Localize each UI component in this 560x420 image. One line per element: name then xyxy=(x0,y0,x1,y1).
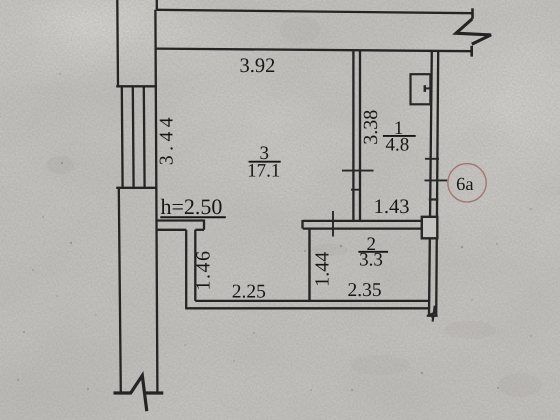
wire band right end tick upper xyxy=(471,8,474,18)
apartment number circle 6a xyxy=(448,164,486,202)
tick 2 right wall leader to circle xyxy=(425,179,448,181)
wire window bottom cap xyxy=(116,187,157,189)
svg-text:h=2.50: h=2.50 xyxy=(161,194,223,219)
wire h-wall cap bottom left piece xyxy=(156,229,186,231)
junction box on right wall xyxy=(422,217,438,239)
wire break symbol bottom-left xyxy=(114,376,164,412)
wire window outer frame line xyxy=(121,86,124,188)
svg-text:17.1: 17.1 xyxy=(247,160,280,181)
wire stem wall right line xyxy=(194,230,196,301)
wire window mullion 2 xyxy=(143,86,146,188)
wire right wall end cap xyxy=(427,315,438,317)
svg-text:4.8: 4.8 xyxy=(386,135,410,156)
svg-text:1.43: 1.43 xyxy=(374,196,410,218)
wire bottom wall top line xyxy=(195,300,429,302)
wire rooms3-1 wall left line xyxy=(352,51,354,221)
wire room2 top wall top line xyxy=(303,220,422,222)
wire room2 top wall left cap xyxy=(301,220,303,229)
wire left outer wall lower segment xyxy=(119,188,121,393)
wire top-left stub vertical xyxy=(156,0,158,11)
underline of h=2.50 xyxy=(160,216,226,218)
svg-text:3.92: 3.92 xyxy=(239,55,275,77)
tick on room2 top wall xyxy=(332,211,334,237)
long tick on rooms3-1 wall xyxy=(342,170,374,172)
cupboard handle vertical xyxy=(424,85,427,92)
wire window mullion 1 xyxy=(132,86,135,188)
cupboard handle horizontal xyxy=(425,87,431,89)
svg-text:3.3: 3.3 xyxy=(359,250,383,271)
tick 3 right wall xyxy=(429,198,439,200)
wire bottom wall bottom line xyxy=(185,307,429,309)
tick 1 right wall xyxy=(425,158,439,160)
wire window top cap xyxy=(116,85,157,87)
room 2 fraction bar xyxy=(358,251,388,253)
svg-text:2.25: 2.25 xyxy=(232,281,266,302)
room 3 fraction bar xyxy=(249,161,281,163)
wire stem wall left line xyxy=(185,230,187,308)
svg-text:3.38: 3.38 xyxy=(360,110,382,145)
wire right wall left line xyxy=(429,51,432,315)
room 1 fraction bar xyxy=(383,135,416,137)
wire break symbol top-right xyxy=(456,19,491,44)
wire h-wall cap bottom right piece xyxy=(195,229,204,231)
wire left outer wall upper segment xyxy=(116,0,119,86)
wire right wall right line xyxy=(436,51,438,315)
wire h-wall cap top xyxy=(156,219,204,221)
short tick on rooms3-1 wall xyxy=(351,189,361,191)
wire room2 top wall bottom line xyxy=(303,227,422,229)
wire room2 left wall xyxy=(308,229,310,301)
wire corridor-wall bottom line xyxy=(156,49,471,52)
svg-text:6a: 6a xyxy=(456,175,473,195)
wire band right end tick lower xyxy=(470,46,473,57)
svg-text:1.46: 1.46 xyxy=(193,250,215,291)
svg-text:1.44: 1.44 xyxy=(312,252,334,287)
wire h-wall cap right edge xyxy=(203,220,205,230)
wire corridor-wall top line xyxy=(157,10,473,13)
paper specks xyxy=(17,73,532,391)
svg-text:2.35: 2.35 xyxy=(347,280,381,301)
cupboard in room 1 xyxy=(411,74,431,104)
wire rooms3-1 wall right line xyxy=(359,51,361,221)
svg-text:3.44: 3.44 xyxy=(157,113,178,165)
wire left inner wall line xyxy=(155,10,157,393)
entrance arrow xyxy=(433,306,435,322)
